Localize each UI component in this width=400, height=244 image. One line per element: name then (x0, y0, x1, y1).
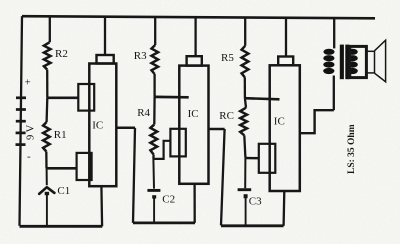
svg-text:R4: R4 (137, 107, 150, 119)
svg-text:+: + (25, 77, 31, 88)
svg-text:R2: R2 (55, 48, 68, 60)
svg-text:R5: R5 (221, 52, 234, 64)
svg-text:C1: C1 (57, 185, 70, 197)
svg-text:R1: R1 (54, 129, 67, 141)
svg-text:C3: C3 (249, 196, 262, 208)
svg-text:-: - (27, 151, 31, 163)
svg-text:C2: C2 (162, 193, 175, 205)
svg-text:R3: R3 (134, 50, 147, 62)
svg-text:LS: 35 Ohm: LS: 35 Ohm (347, 124, 357, 174)
svg-text:9 V: 9 V (25, 124, 36, 140)
svg-text:IC: IC (274, 116, 285, 128)
svg-text:IC: IC (92, 120, 103, 132)
svg-text:RC: RC (219, 110, 234, 122)
svg-text:IC: IC (188, 108, 199, 120)
